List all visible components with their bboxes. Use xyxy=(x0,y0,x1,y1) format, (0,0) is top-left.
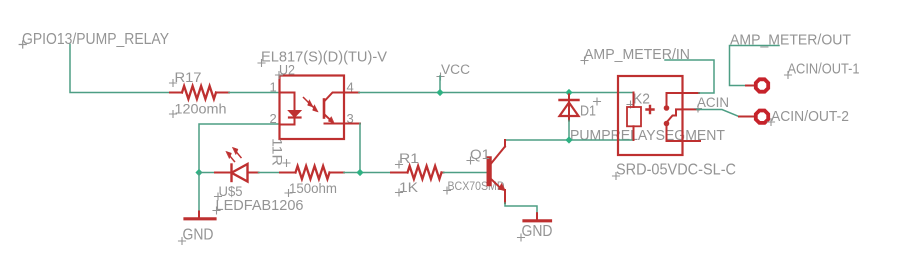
LED U$5 emission arrows xyxy=(226,147,241,161)
U2 internal light arrows xyxy=(304,98,319,113)
relay pin stub top right xyxy=(683,92,700,94)
svg-text:ACIN/OUT-1: ACIN/OUT-1 xyxy=(788,62,860,78)
U2 internal LED xyxy=(280,93,301,125)
svg-text:150ohm: 150ohm xyxy=(289,180,337,196)
node AMP_METER/IN xyxy=(581,46,690,64)
junction D1 top xyxy=(565,89,572,96)
label R1 xyxy=(396,150,420,168)
relay lever xyxy=(667,109,700,122)
wire LED to 150ohm resistor xyxy=(259,172,281,174)
wire U2 pin3 down to LED row xyxy=(359,124,361,173)
resistor R17 xyxy=(170,86,229,99)
relay coil xyxy=(627,107,641,126)
wire GPIO13 vertical+horizontal to R17 xyxy=(70,45,170,93)
wire LED junction to GND left xyxy=(198,173,200,212)
ground left xyxy=(185,212,215,219)
svg-text:120omh: 120omh xyxy=(175,101,227,117)
svg-text:VCC: VCC xyxy=(441,62,470,77)
pad ACIN/OUT-1 xyxy=(756,79,768,91)
label U2 xyxy=(276,62,296,79)
node VCC xyxy=(437,62,470,80)
svg-text:R17: R17 xyxy=(175,69,202,85)
op-amp U2 optocoupler EL817 box xyxy=(280,76,345,140)
wire AMP_METER/IN to relay xyxy=(665,60,714,93)
wire ACIN to pad OUT-2 xyxy=(697,110,739,117)
label D1 xyxy=(580,98,601,120)
svg-text:GND: GND xyxy=(522,223,553,240)
wire VCC row: U2 pin4 to relay coil xyxy=(359,92,634,94)
wire AMP_METER/OUT to pad OUT-1 xyxy=(730,46,780,86)
node ACIN label xyxy=(695,94,730,112)
value 150ohm xyxy=(285,180,337,197)
U2 internal phototransistor xyxy=(324,93,344,124)
diode D1 xyxy=(560,95,579,121)
LED U$5 xyxy=(215,164,259,182)
svg-text:Q1: Q1 xyxy=(470,146,490,162)
resistor 150ohm xyxy=(280,166,344,179)
wire D1 bottom xyxy=(568,121,570,141)
node GPIO13/PUMP_RELAY xyxy=(19,31,169,48)
wire U2 pin2 to LED net xyxy=(199,124,280,173)
label U$5 xyxy=(215,183,243,200)
pad stub OUT-1 xyxy=(746,85,754,87)
relay plus mark xyxy=(647,106,654,113)
svg-text:LEDFAB1206: LEDFAB1206 xyxy=(216,198,304,214)
svg-text:ACIN/OUT-2: ACIN/OUT-2 xyxy=(771,109,849,125)
svg-text:SRD-05VDC-SL-C: SRD-05VDC-SL-C xyxy=(616,162,736,179)
relay contact bottom + COM pin xyxy=(664,121,670,127)
svg-text:PUMPRELAYSEGMENT: PUMPRELAYSEGMENT xyxy=(570,127,725,144)
transistor Q1 xyxy=(487,140,506,203)
pad ACIN/OUT-2 xyxy=(756,111,768,123)
wire R1 to Q1 base xyxy=(444,172,488,174)
label K2 xyxy=(627,91,650,109)
value 120omh xyxy=(170,101,227,118)
label LEDFAB1206 xyxy=(213,198,304,214)
junction VCC xyxy=(436,89,443,96)
svg-text:2: 2 xyxy=(270,111,277,126)
node AMP_METER/OUT xyxy=(730,32,851,49)
label ACIN/OUT-2 xyxy=(768,109,850,126)
junction LED row right xyxy=(356,169,363,176)
pin 4 stub xyxy=(344,92,359,94)
svg-text:GPIO13/PUMP_RELAY: GPIO13/PUMP_RELAY xyxy=(22,31,169,48)
label R17 xyxy=(170,69,202,87)
label GND left xyxy=(179,227,214,245)
pad stub OUT-2 xyxy=(739,116,754,118)
junction D1 bottom xyxy=(565,136,572,143)
svg-text:D1: D1 xyxy=(580,103,596,120)
relay K2 box xyxy=(618,76,683,155)
junction LED row left xyxy=(195,169,202,176)
label GND right xyxy=(518,223,553,241)
label EL817(S)(D)(TU)-V xyxy=(258,49,387,67)
wire bottom row Q1 collector to relay coil xyxy=(505,139,634,141)
relay coil lead top xyxy=(633,93,635,108)
ground right xyxy=(524,213,551,221)
wire junction to LED xyxy=(199,172,215,174)
svg-text:K2: K2 xyxy=(633,91,650,108)
label Q1 xyxy=(467,146,490,164)
wire R17 to U2 pin1 xyxy=(229,92,280,94)
svg-text:GND: GND xyxy=(183,227,214,244)
relay coil lead bottom xyxy=(633,126,635,140)
svg-text:R1: R1 xyxy=(399,150,419,166)
label SRD-05VDC-SL-C xyxy=(613,162,737,180)
svg-text:ACIN: ACIN xyxy=(697,94,729,110)
svg-text:1: 1 xyxy=(270,80,277,95)
label ACIN/OUT-1 xyxy=(785,62,860,79)
wire VCC stub xyxy=(439,76,441,93)
pin 3 stub xyxy=(344,123,360,125)
value 1K xyxy=(396,179,419,196)
wire 150ohm to junction to R1 xyxy=(344,172,391,174)
svg-text:11R: 11R xyxy=(270,138,286,166)
svg-text:U$5: U$5 xyxy=(219,183,243,199)
svg-text:BCX70SMD: BCX70SMD xyxy=(448,179,505,193)
relay contact top xyxy=(667,93,683,106)
wire Q1 emitter to GND xyxy=(505,203,537,213)
value BCX70SMD xyxy=(444,179,505,194)
resistor R1 xyxy=(391,166,444,179)
label R11 vertical xyxy=(270,138,291,167)
